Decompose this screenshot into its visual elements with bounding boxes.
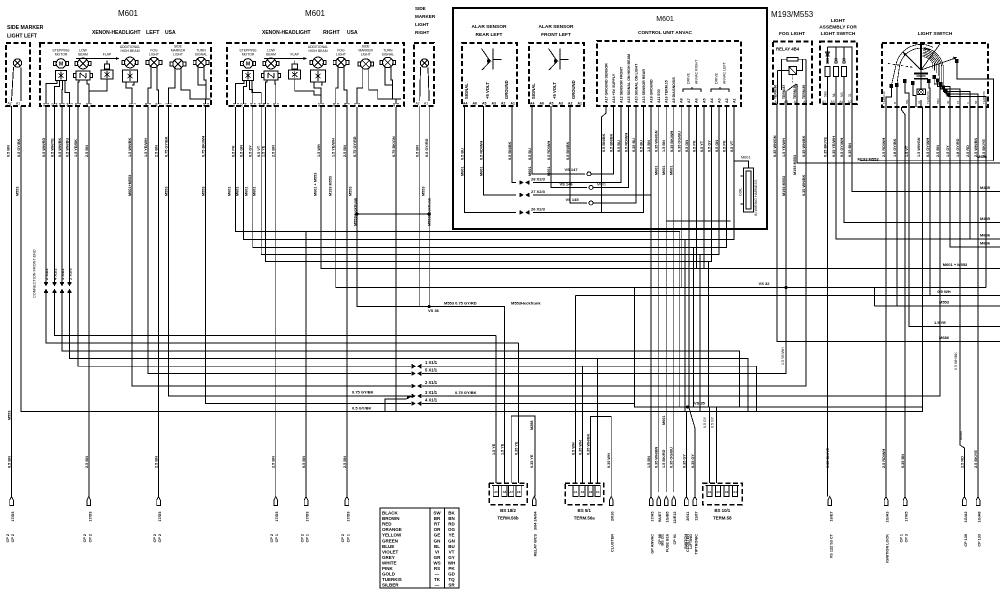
wires side marker left lamp [12,67,14,101]
svg-text:0.35 WH/GN: 0.35 WH/GN [773,135,777,157]
svg-text:0.35 BU: 0.35 BU [632,138,636,152]
svg-text:17/D3: 17/D3 [11,512,15,522]
svg-text:A3: A3 [725,490,729,494]
svg-text:1.5 YE/WH: 1.5 YE/WH [782,138,786,157]
svg-text:3 X1/1: 3 X1/1 [425,390,438,395]
svg-text:58R: 58R [936,98,940,104]
svg-text:A2: A2 [581,490,585,494]
control unit anvac box [597,41,741,106]
svg-text:0.5 RD/WH: 0.5 RD/WH [625,133,629,152]
svg-text:VI: VI [435,549,439,554]
side marker light right box [414,43,434,106]
svg-text:TERM.56b: TERM.56b [497,516,519,521]
wire 2.5 BN fog left [158,106,160,497]
svg-text:M601: M601 [118,9,139,18]
svg-text:CP 91: CP 91 [673,534,677,544]
svg-text:0.5 WH: 0.5 WH [937,289,950,294]
svg-text:RED: RED [382,522,392,527]
svg-text:CP 2: CP 2 [11,534,15,542]
svg-text:A4: A4 [839,100,843,104]
bus M686 right [860,160,994,162]
svg-text:1.5 WH: 1.5 WH [317,144,321,157]
svg-text:BEAM: BEAM [266,53,276,57]
svg-text:0.5 GY/BK: 0.5 GY/BK [17,138,21,157]
svg-text:REAR LEFT: REAR LEFT [476,32,503,38]
svg-text:1.5 YE/WH: 1.5 YE/WH [781,347,785,365]
switch wire 2.5 RD to CP 130 [977,107,979,497]
svg-text:0.35 BK/YE: 0.35 BK/YE [824,136,828,157]
svg-text:XENON-HEADLIGHT: XENON-HEADLIGHT [262,30,311,36]
svg-text:BS 10/1: BS 10/1 [714,508,730,513]
left headlight wires to bundle A [55,293,496,336]
svg-text:M601 + M553: M601 + M553 [313,173,317,196]
svg-text:M553 0.75 GY/RD: M553 0.75 GY/RD [444,300,477,305]
svg-text:A7: A7 [775,100,779,104]
svg-text:RIGHT: RIGHT [415,30,429,35]
svg-text:A2: A2 [725,98,729,103]
jumper BS 5/1 A3 to cluster [591,417,612,497]
svg-text:HIGH BEAM: HIGH BEAM [120,49,139,53]
svg-text:A3: A3 [589,490,593,494]
svg-text:HIGH BEAM: HIGH BEAM [308,49,327,53]
svg-text:A3: A3 [492,102,496,106]
svg-text:0.5 BN/BK: 0.5 BN/BK [610,133,614,152]
svg-text:0.35 BK/WH: 0.35 BK/WH [670,130,674,152]
switch wire 1.5 GY [960,107,964,497]
svg-text:0.35 OG/BU: 0.35 OG/BU [670,447,674,468]
side marker light left box [6,43,30,106]
svg-text:CP 2: CP 2 [341,534,345,542]
svg-text:2.5 RD/WH: 2.5 RD/WH [882,449,886,468]
svg-text:TQ: TQ [448,577,455,582]
vertical feeds to bottom strip [495,335,497,483]
svg-text:NS: NS [840,92,844,97]
svg-text:2.5 RD/WH: 2.5 RD/WH [882,138,886,157]
svg-text:0.35 OG/BU: 0.35 OG/BU [677,131,681,152]
light assembly box [820,42,857,105]
svg-text:0.75 BK/WH: 0.75 BK/WH [202,135,206,157]
svg-text:0.5 RD/WH: 0.5 RD/WH [547,141,551,160]
svg-text:0.5 GY: 0.5 GY [703,416,707,428]
svg-text:PK: PK [448,566,455,571]
connector BS 10/1 TERM.58 [703,483,743,505]
svg-text:0.5 GN: 0.5 GN [715,140,719,152]
wire A4 to right headlight [266,106,712,262]
svg-text:M601: M601 [236,187,240,197]
svg-text:GR: GR [434,555,442,560]
svg-text:1.5 YE: 1.5 YE [934,320,946,325]
svg-text:TERM.56a: TERM.56a [574,516,596,521]
light switch inner step wires [886,85,892,107]
svg-text:IGNITION LOCK: IGNITION LOCK [886,534,890,563]
left X1/2 connectors [45,106,47,283]
svg-text:GN: GN [448,538,455,543]
svg-text:4 X1/1: 4 X1/1 [425,398,438,403]
svg-text:USA: USA [347,30,358,36]
svg-text:—: — [435,583,440,588]
svg-text:ALAR SENSOR: ALAR SENSOR [539,24,574,30]
junction side marker right wires [419,106,421,307]
svg-text:0.5 PK: 0.5 PK [232,145,236,157]
svg-text:15: 15 [956,100,960,104]
svg-text:M601 + M553: M601 + M553 [943,262,968,267]
svg-text:2.5 BN: 2.5 BN [343,456,347,468]
svg-text:CP 1: CP 1 [306,534,310,542]
gp anvac terminal [649,497,653,506]
svg-text:0.5 GY/WH: 0.5 GY/WH [840,138,844,157]
svg-text:RT: RT [434,522,440,527]
fog light wires [148,67,151,105]
svg-text:M553: M553 [349,187,353,197]
svg-text:0.5 BN: 0.5 BN [302,456,306,468]
svg-text:31: 31 [917,100,921,104]
svg-text:GN: GN [434,538,441,543]
svg-text:0.35 YE/WH: 0.35 YE/WH [832,136,836,157]
svg-text:SR: SR [448,583,455,588]
svg-text:LIGHT: LIGHT [336,53,346,57]
svg-text:ANVAC LEFT: ANVAC LEFT [723,61,727,84]
bus M193 M553 right [797,104,1000,163]
svg-text:SIDE: SIDE [415,6,426,11]
relay lever contact [788,84,797,91]
svg-text:M: M [59,62,63,68]
connector BS 5/1 TERM.56a [565,483,604,505]
svg-text:0.5 WH/BK: 0.5 WH/BK [954,352,958,370]
svg-text:TK: TK [434,577,441,582]
svg-text:2.5 BN: 2.5 BN [85,145,89,157]
svg-text:CP 3: CP 3 [905,534,909,542]
svg-text:0.5 VT: 0.5 VT [257,145,261,157]
wire side marker left A1 gy/bk [21,106,412,411]
light assembly indicator circles [826,61,829,64]
svg-text:0.5 PK: 0.5 PK [722,140,726,152]
svg-text:0.35 BN: 0.35 BN [901,454,905,468]
svg-text:A1: A1 [16,102,20,106]
svg-text:28 X2/3: 28 X2/3 [531,177,546,182]
svg-text:0.35 WH/GN: 0.35 WH/GN [655,130,659,152]
VS 35 drop to BS 10/1 [709,407,711,483]
svg-text:VS 145: VS 145 [565,197,579,202]
flap wires [295,79,321,95]
svg-text:A18 GROUND: A18 GROUND [650,79,654,103]
svg-text:SILBER: SILBER [382,583,399,588]
svg-text:SWITCH: SWITCH [684,534,688,549]
light switch outer arcs [892,44,934,85]
light switch box [882,43,988,107]
svg-text:TIPTRONIC: TIPTRONIC [694,534,698,555]
svg-text:2.5 RD: 2.5 RD [966,145,970,157]
stepping motor wires [236,81,244,105]
svg-text:2.5 BN: 2.5 BN [936,145,940,157]
svg-text:0.75 GY/BK: 0.75 GY/BK [352,390,374,395]
svg-text:27 X2/3: 27 X2/3 [531,189,546,194]
svg-text:0.5 RD/WH: 0.5 RD/WH [480,141,484,160]
svg-text:M553: M553 [16,187,20,197]
svg-text:0.35 YE: 0.35 YE [530,454,534,468]
svg-text:M553: M553 [421,187,425,197]
svg-text:M193 M553: M193 M553 [782,176,786,196]
svg-text:0.75 GY/RD: 0.75 GY/RD [353,136,357,157]
svg-text:GE: GE [434,533,441,538]
svg-text:2.5 BN: 2.5 BN [272,456,276,468]
svg-text:DRIVE: DRIVE [715,72,719,84]
side marker wires [357,68,363,104]
svg-text:CONNECTION FRONT END: CONNECTION FRONT END [33,249,37,298]
svg-text:NL: NL [832,93,836,97]
svg-text:TERM.87: TERM.87 [782,85,786,99]
wire 0.75 GY/BK to 3 X1/1 [168,106,411,396]
svg-text:CP 1: CP 1 [899,534,903,542]
svg-text:OG: OG [448,527,456,532]
svg-text:0.35 WH: 0.35 WH [578,440,582,455]
svg-text:A14 +5V SUPPLY: A14 +5V SUPPLY [612,73,616,103]
svg-text:TERM.30: TERM.30 [882,91,886,104]
svg-text:0.5 BU: 0.5 BU [461,148,465,160]
svg-text:LIGHT: LIGHT [149,53,159,57]
svg-text:0.75 GY/BK: 0.75 GY/BK [455,390,477,395]
svg-text:VIOLET: VIOLET [382,549,399,554]
svg-text:+5 VOLT: +5 VOLT [485,82,490,99]
svg-text:SIGNAL: SIGNAL [464,83,469,99]
svg-text:BK: BK [448,511,455,516]
svg-text:M193 M553: M193 M553 [329,176,333,196]
svg-text:M601: M601 [305,9,326,18]
svg-text:COIL: COIL [739,188,743,196]
svg-text:1G/A3: 1G/A3 [886,512,890,523]
svg-text:BLUE: BLUE [382,544,394,549]
svg-text:A2: A2 [501,102,505,106]
svg-text:M553: M553 [202,187,206,197]
svg-text:A9 DIAGNOSIS: A9 DIAGNOSIS [672,77,676,103]
svg-text:A13 SENSOR REAR: A13 SENSOR REAR [642,69,646,103]
svg-text:0.5 BU: 0.5 BU [528,148,532,160]
svg-text:2 X1/2: 2 X1/2 [44,268,49,280]
svg-text:0.5 BU: 0.5 BU [617,140,621,152]
svg-text:M455: M455 [980,216,991,221]
svg-text:M193 M553: M193 M553 [793,155,797,175]
svg-text:CP 2: CP 2 [300,534,304,542]
control unit drive bracket right [683,89,692,92]
svg-text:2.5 BN: 2.5 BN [85,456,89,468]
svg-text:M601: M601 [245,187,249,197]
xenon headlight right box M601 [227,43,404,106]
wire sensor rear A1 to 28 X2/3 [512,106,516,183]
low beam wires [266,80,267,104]
bundle drop wires to VS 35 area [306,232,680,408]
svg-text:1.5 BN: 1.5 BN [647,140,651,152]
lamp side marker right [420,59,428,67]
svg-text:A10 SIGNAL ON LIGHT: A10 SIGNAL ON LIGHT [635,63,639,103]
svg-text:M601: M601 [547,167,551,177]
svg-text:BU: BU [448,544,455,549]
wire A9 to BS 2/1 [673,106,675,492]
svg-text:17/K5: 17/K5 [905,512,909,522]
svg-text:0.5 BN: 0.5 BN [416,145,420,157]
svg-text:0.35 BN: 0.35 BN [848,143,852,157]
wire A16 to CP 88 [665,106,667,492]
svg-text:1.5 WH/GN: 1.5 WH/GN [917,137,921,157]
svg-text:0.5 WH: 0.5 WH [572,442,576,455]
svg-text:1.5 BN: 1.5 BN [662,140,666,152]
cp130 terminal [963,497,967,506]
assembly wire buses [852,104,1000,191]
svg-text:TERM.56: TERM.56 [926,91,930,104]
svg-text:M601: M601 [461,167,465,177]
wire sensor rear A4 to 26 X2/3 [465,106,517,212]
switch wire 1.8 GY/RD [969,107,971,239]
svg-text:WS: WS [433,560,440,565]
svg-text:M601: M601 [670,166,674,176]
svg-text:1.5 YE: 1.5 YE [262,145,266,157]
light assembly top wire [828,47,853,104]
svg-text:YELLOW: YELLOW [382,533,402,538]
wire A5 [703,106,705,269]
svg-text:A4: A4 [710,98,714,103]
svg-text:0.35 WH/BK: 0.35 WH/BK [802,174,806,196]
svg-text:BEAM: BEAM [78,53,88,57]
vs 122 terminal [828,497,832,506]
svg-text:0.35 WH/BK: 0.35 WH/BK [587,433,591,455]
svg-text:VS 36: VS 36 [428,308,440,313]
svg-text:M686: M686 [939,335,950,340]
svg-text:1.5 YE: 1.5 YE [500,443,504,455]
svg-text:A5: A5 [784,100,788,104]
wire sensor front A5 VS 146 [551,106,587,187]
svg-text:GREY: GREY [382,555,395,560]
fog light relay box [773,42,812,105]
svg-text:0.5 BN/BK: 0.5 BN/BK [602,133,606,152]
svg-text:A3: A3 [559,102,563,106]
svg-text:11/07: 11/07 [694,512,698,521]
wire right stepping to terminal 0.5 BN [236,107,306,497]
svg-text:A7: A7 [687,98,691,103]
svg-text:12/E12: 12/E12 [673,512,677,524]
svg-text:FLAP: FLAP [103,53,112,57]
svg-text:SIGNAL: SIGNAL [531,83,536,99]
ALAR sensor front left box [529,43,584,106]
svg-text:M601: M601 [480,167,484,177]
svg-text:0.35 GY: 0.35 GY [691,454,695,468]
turn signal wires [198,67,206,86]
wire 1.5 WH to bus M601+M553 [321,107,1000,269]
svg-text:—: — [435,572,440,577]
svg-text:VT: VT [449,549,455,554]
svg-text:A7: A7 [509,490,513,494]
svg-text:0.5 GY/RD: 0.5 GY/RD [425,138,429,157]
svg-text:0.5 BU: 0.5 BU [640,140,644,152]
svg-text:2/011: 2/011 [686,512,690,521]
svg-text:0.35 YE: 0.35 YE [515,441,519,455]
svg-text:A17 GROUND SENSOR: A17 GROUND SENSOR [604,63,608,103]
svg-text:GROUND: GROUND [504,80,509,99]
svg-text:0.5 WH/BK: 0.5 WH/BK [58,138,62,157]
svg-text:M553Heckfrunk: M553Heckfrunk [511,300,541,305]
switch wire drops [885,107,887,497]
svg-text:1.5 BK/RD: 1.5 BK/RD [662,449,666,468]
svg-text:M601: M601 [228,187,232,197]
svg-text:17/D3: 17/D3 [158,512,162,522]
wire A1 to right headlight [244,106,735,240]
svg-text:A8: A8 [680,98,684,103]
svg-text:CP 2: CP 2 [6,534,10,542]
wire A18 to GP ANVAC [650,106,652,497]
svg-text:0.5 GY: 0.5 GY [707,140,711,152]
wire right 2.5 BN to terminal [346,107,348,497]
wire A2 to right headlight [253,106,727,248]
svg-text:CP 1: CP 1 [275,534,279,542]
VS 35 line [635,288,923,408]
svg-text:1.5 WH/BK: 1.5 WH/BK [128,138,132,157]
ALAR sensor symbol [492,49,494,70]
svg-text:1.5 GY: 1.5 GY [946,145,950,157]
fog light wires [336,67,338,105]
svg-text:A4: A4 [530,102,534,106]
svg-text:3/04 3A/04: 3/04 3A/04 [534,511,538,530]
lamp side marker left [13,59,21,67]
svg-text:A5: A5 [549,102,553,106]
svg-text:9A/E7: 9A/E7 [658,512,662,523]
xenon headlight left box M601 [40,43,211,106]
svg-text:A1: A1 [424,102,428,106]
svg-text:1.8 GY/BK: 1.8 GY/BK [893,138,897,157]
svg-text:M601: M601 [662,416,666,426]
svg-text:A4: A4 [596,490,600,494]
control unit drive bracket left [711,89,720,92]
svg-text:A1: A1 [822,100,826,104]
svg-text:0.5 BN/BK: 0.5 BN/BK [508,141,512,160]
svg-text:1G/A8: 1G/A8 [978,512,982,523]
svg-text:TERM.85: TERM.85 [802,85,806,99]
svg-text:+5 VOLT: +5 VOLT [552,82,557,99]
light assembly diode [827,47,829,52]
svg-text:A1: A1 [511,102,515,106]
svg-text:0.5 GY: 0.5 GY [711,416,715,428]
svg-text:16/E7: 16/E7 [829,512,833,522]
turn signal wires [385,67,393,86]
svg-text:0.5 GY: 0.5 GY [249,145,253,157]
wire right turn signal 0.75 BK/GN [395,107,397,411]
svg-text:A16 TERM.15: A16 TERM.15 [665,80,669,103]
svg-text:CP 2: CP 2 [88,534,92,542]
svg-text:CP 2: CP 2 [153,534,157,542]
svg-text:17/D3: 17/D3 [88,512,92,522]
svg-text:1 X1/1: 1 X1/1 [425,360,438,365]
wire 5 X1/1 from fog left [148,106,411,374]
svg-text:0.5 BN/BK: 0.5 BN/BK [566,141,570,160]
svg-text:1.5 VT: 1.5 VT [905,145,909,157]
svg-text:2.5 BN: 2.5 BN [272,145,276,157]
svg-text:A1: A1 [574,490,578,494]
svg-text:2 X1/3: 2 X1/3 [68,268,73,280]
flap wires [89,79,107,104]
wire A16 coil link [666,220,731,222]
svg-text:WHITE: WHITE [382,560,397,565]
wires side marker right lamp [419,67,422,101]
svg-text:0.5 WH/BU: 0.5 WH/BU [66,138,70,157]
svg-text:17/D3: 17/D3 [306,512,310,522]
wire 1.5 YE/WH to VS 32 bus [336,107,986,288]
svg-text:0.35 WH/BK: 0.35 WH/BK [802,135,806,157]
stepping motor wires [46,81,57,105]
svg-text:1.5 YE/BK: 1.5 YE/BK [74,139,78,157]
svg-text:CP 1: CP 1 [346,534,350,542]
svg-text:58d: 58d [824,91,828,97]
svg-text:DRIVE: DRIVE [687,72,691,84]
svg-text:0.5 BN: 0.5 BN [7,145,11,157]
svg-text:XENON-HEADLIGHT: XENON-HEADLIGHT [92,30,141,36]
svg-text:A5: A5 [702,98,706,103]
svg-text:RIGHT: RIGHT [323,30,340,36]
